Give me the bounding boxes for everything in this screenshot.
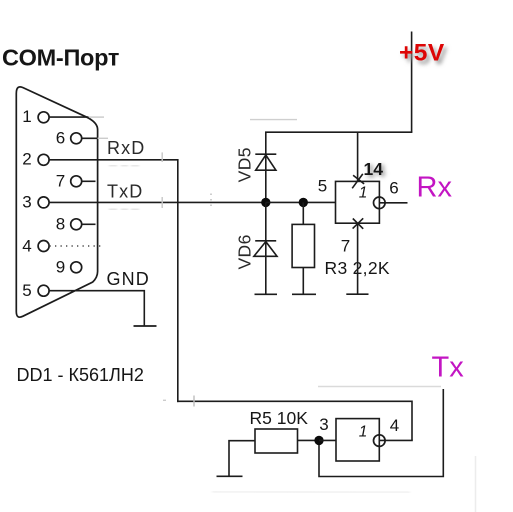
ground bar under pin7 bbox=[346, 293, 368, 295]
wire Tx drop bbox=[319, 389, 443, 477]
artifact tick crossing RxD corner bbox=[161, 152, 163, 162]
node B junction dot bbox=[299, 198, 308, 207]
wire pin2 vertical down bbox=[177, 159, 179, 402]
wire pin6 ghost remnant bbox=[98, 137, 108, 139]
wire pin1 stub bbox=[49, 116, 89, 118]
svg-text:9: 9 bbox=[56, 257, 65, 276]
svg-text:Tx: Tx bbox=[432, 352, 465, 384]
diode VD6 bbox=[254, 202, 277, 294]
inverter gate DD1.1 box bbox=[336, 181, 380, 223]
svg-text:4: 4 bbox=[390, 416, 399, 435]
svg-text:Rx: Rx bbox=[417, 172, 453, 204]
wire pin2 to corner bbox=[49, 159, 178, 161]
diode VD5 bbox=[255, 132, 276, 202]
artifact faint vertical right bbox=[475, 456, 477, 512]
svg-text:7: 7 bbox=[56, 171, 65, 190]
gate DD1.1 output bubble bbox=[374, 197, 386, 209]
ground bar under R5 bbox=[217, 475, 243, 477]
ground bar under VD6 bbox=[255, 293, 278, 295]
ghost erased text under RxD bbox=[109, 163, 139, 169]
wire gate2 output bbox=[379, 439, 413, 441]
wire pin7 stub bbox=[81, 180, 95, 182]
pin 8 circle bbox=[71, 219, 82, 230]
wire pin6 stub bbox=[81, 137, 97, 139]
svg-text:6: 6 bbox=[56, 128, 65, 147]
svg-text:7: 7 bbox=[341, 236, 350, 255]
inverter gate DD1.2 box bbox=[336, 419, 379, 461]
artifact tick on bottom horizontal bbox=[193, 396, 195, 407]
node A junction dot bbox=[261, 198, 270, 207]
artifact tick crossing TxD line bbox=[161, 197, 163, 208]
pin 2 circle bbox=[38, 154, 49, 165]
node C junction dot bbox=[314, 436, 323, 445]
svg-text:1: 1 bbox=[22, 107, 31, 126]
svg-text:14: 14 bbox=[364, 159, 384, 179]
wire +5V drop bbox=[411, 32, 413, 133]
pin 5 circle bbox=[38, 285, 49, 296]
wire pin4 dotted stub bbox=[50, 245, 104, 247]
svg-text:R5 10K: R5 10K bbox=[250, 408, 309, 428]
connector DB9 body outline bbox=[16, 87, 97, 317]
pin 7 cross mark bbox=[353, 218, 364, 229]
wire R5 left to ground bbox=[229, 441, 255, 477]
svg-text:VD5: VD5 bbox=[235, 147, 255, 182]
wire node C to gate2 input bbox=[319, 439, 336, 441]
svg-text:DD1 - К561ЛН2: DD1 - К561ЛН2 bbox=[17, 365, 144, 385]
artifact bottom smudge bbox=[212, 492, 410, 493]
svg-text:3: 3 bbox=[22, 192, 31, 211]
pin 6 circle bbox=[71, 133, 82, 144]
pin 9 circle bbox=[71, 262, 82, 273]
ghost erased text under TxD bbox=[109, 207, 139, 213]
svg-text:6: 6 bbox=[389, 179, 398, 198]
wire pin3 TxD line to node A bbox=[49, 201, 266, 203]
svg-text:3: 3 bbox=[319, 415, 328, 434]
artifact dotted tick on TxD line bbox=[210, 194, 212, 210]
resistor R5 body bbox=[255, 429, 298, 453]
svg-text:TxD: TxD bbox=[107, 181, 143, 201]
svg-text:1: 1 bbox=[359, 185, 368, 202]
pin 4 circle bbox=[38, 241, 49, 252]
wire pin1 ghost remnant bbox=[89, 116, 104, 118]
wire top rail bbox=[265, 131, 412, 133]
ground bar under R3 bbox=[292, 293, 316, 295]
svg-text:RxD: RxD bbox=[107, 138, 145, 158]
wire R5 right to node C bbox=[298, 439, 320, 441]
wire rail to gate1 pin14 bbox=[357, 132, 359, 181]
gate DD1.2 output bubble bbox=[374, 435, 386, 447]
wire gate2 output riser bbox=[411, 401, 413, 441]
ground bar under GND bbox=[134, 325, 157, 327]
wire node A to node B bbox=[266, 201, 336, 203]
svg-text:5: 5 bbox=[318, 177, 327, 196]
artifact faint line above top rail bbox=[250, 119, 297, 121]
svg-text:4: 4 bbox=[22, 236, 31, 255]
artifact dot left of tick bbox=[163, 399, 166, 401]
pin 1 circle bbox=[38, 112, 49, 123]
svg-text:COM-Порт: COM-Порт bbox=[2, 45, 119, 71]
svg-text:+5V: +5V bbox=[399, 40, 445, 67]
svg-text:GND: GND bbox=[107, 269, 150, 289]
svg-text:1: 1 bbox=[359, 424, 368, 441]
svg-text:5: 5 bbox=[22, 281, 31, 300]
pin 14 cross mark bbox=[352, 174, 364, 188]
svg-text:VD6: VD6 bbox=[235, 234, 255, 269]
wire gate1 pin7 down bbox=[357, 223, 359, 294]
artifact faint erased line to Tx bbox=[318, 386, 441, 388]
svg-text:8: 8 bbox=[56, 214, 65, 233]
svg-text:2: 2 bbox=[22, 150, 31, 169]
wire gate1 output bbox=[379, 202, 407, 204]
wire pin5 GND bbox=[49, 291, 145, 326]
resistor R3 body bbox=[292, 202, 314, 294]
pin 3 circle bbox=[38, 197, 49, 208]
wire pin8 stub bbox=[81, 223, 95, 225]
wire bottom horizontal to gate2 output bbox=[177, 400, 412, 402]
pin 7 circle bbox=[71, 176, 82, 187]
